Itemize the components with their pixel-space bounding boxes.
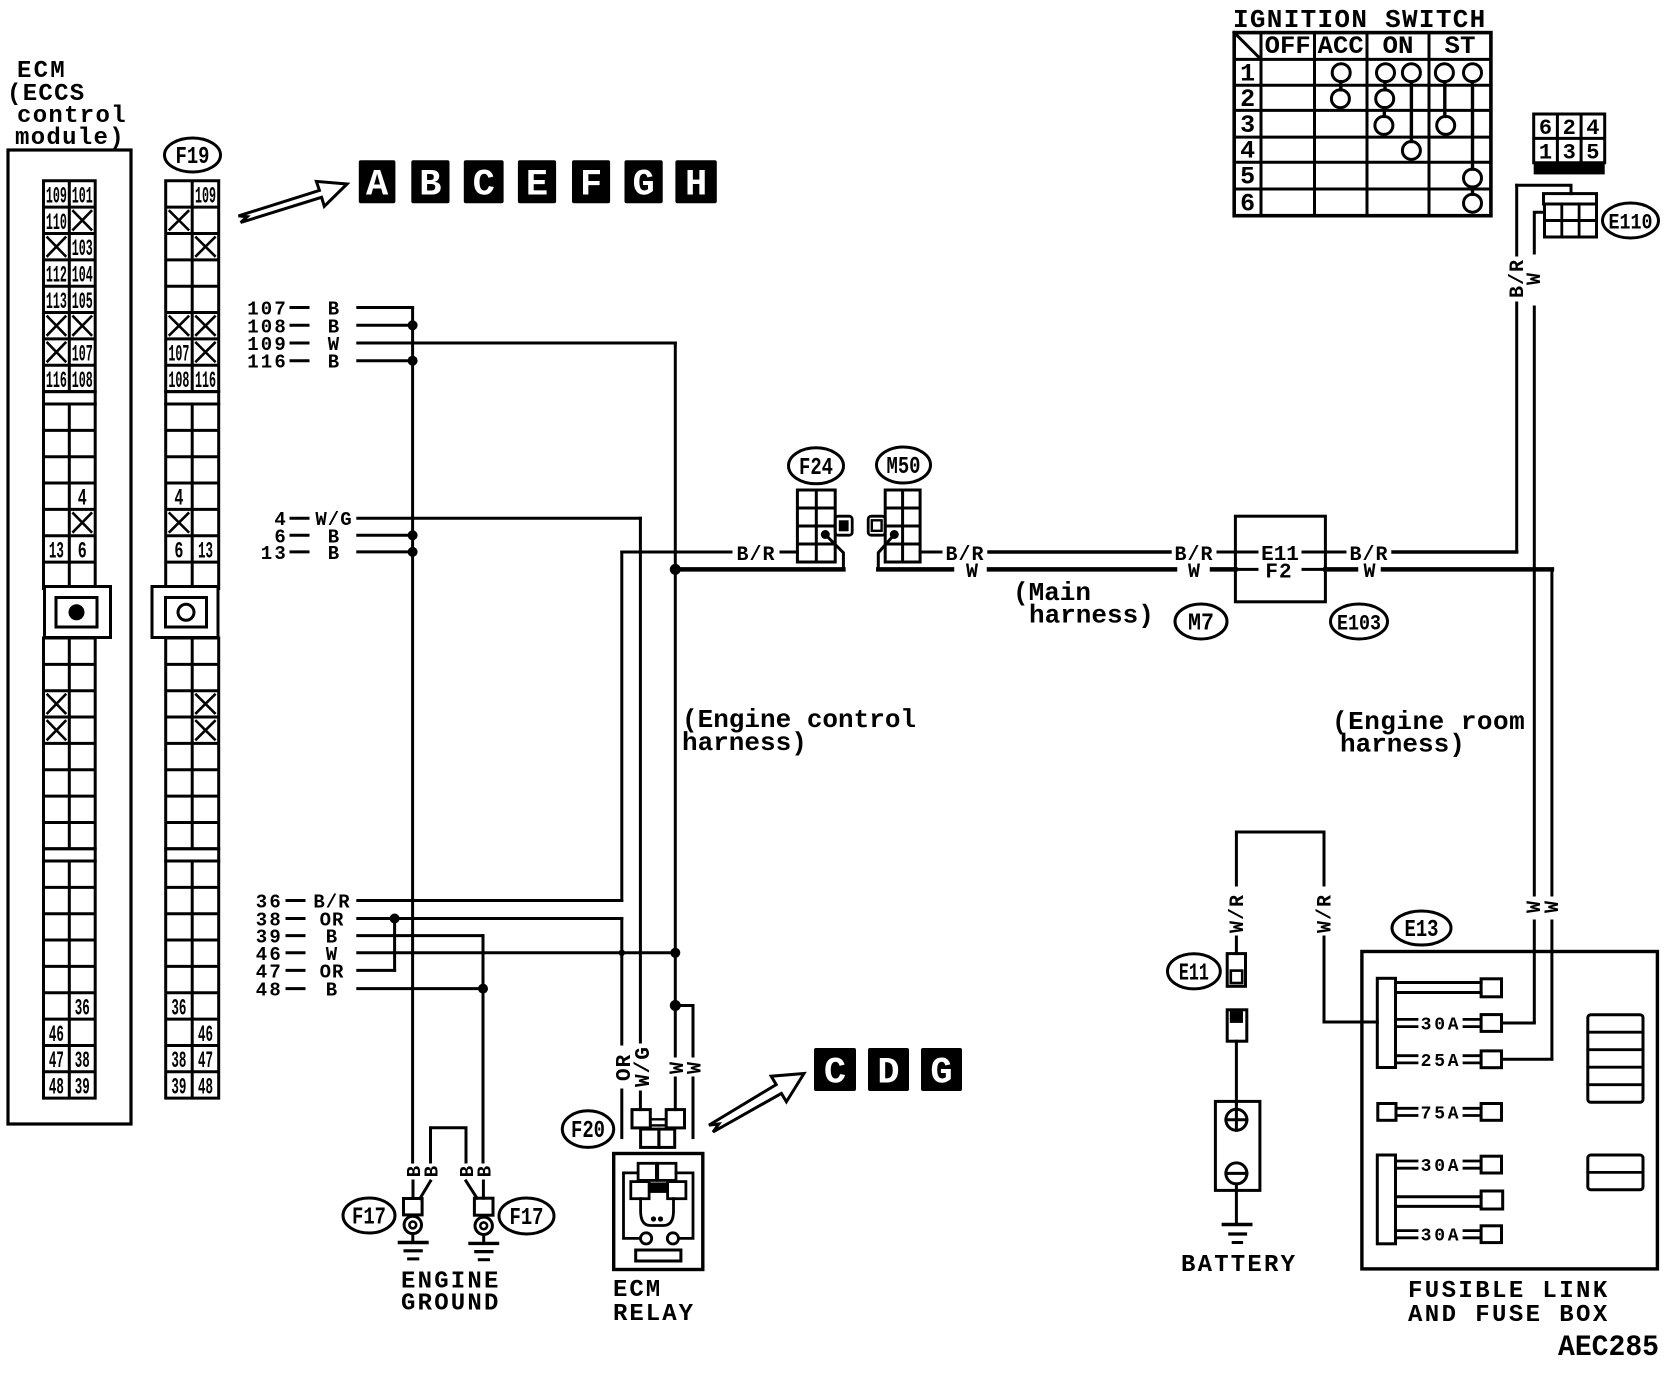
wire W from E110 to fuse box (30A) [1534, 212, 1544, 253]
svg-text:W: W [1188, 561, 1200, 584]
svg-text:13: 13 [49, 538, 64, 564]
connector view label E [518, 160, 556, 203]
svg-text:6: 6 [1539, 116, 1552, 141]
connector E11 oval label [1168, 954, 1221, 989]
connector view label F [572, 160, 610, 203]
svg-text:A: A [366, 165, 389, 207]
connector view label H [675, 160, 716, 203]
svg-text:harness): harness) [682, 728, 807, 758]
relay connector view label G [921, 1048, 962, 1091]
connector F20 pins [632, 1110, 685, 1148]
connector E103 oval label [1331, 604, 1388, 639]
junction small 46-W at OR crossing [619, 950, 625, 956]
F19 connector pin grid lower [166, 638, 219, 849]
svg-text:5: 5 [1240, 163, 1255, 192]
wire W branch to relay [675, 1006, 693, 1057]
svg-text:AEC285: AEC285 [1558, 1331, 1659, 1365]
svg-text:F17: F17 [510, 1205, 544, 1232]
svg-text:39: 39 [171, 1074, 186, 1100]
svg-text:H: H [685, 165, 707, 207]
F19 securing bolt symbol [152, 587, 218, 638]
svg-text:110: 110 [46, 210, 67, 236]
svg-text:E110: E110 [1609, 211, 1653, 236]
junction 46-W [670, 948, 680, 958]
connector F19 oval label [165, 138, 221, 172]
wire B (pins 39/48) to right ground [482, 936, 485, 1162]
svg-text:2: 2 [1240, 85, 1255, 114]
svg-text:2: 2 [1563, 116, 1576, 141]
svg-text:6: 6 [1240, 189, 1255, 218]
svg-text:4: 4 [174, 486, 183, 512]
svg-text:W: W [1363, 561, 1375, 584]
connector M50 grid [885, 490, 920, 562]
F19 connector pin grid [152, 181, 219, 1101]
wire B/R to F24 [622, 551, 731, 554]
svg-text:46: 46 [198, 1022, 213, 1048]
fuse 25A [1396, 1051, 1502, 1072]
svg-text:116: 116 [46, 368, 67, 394]
ignition switch table [1234, 32, 1491, 218]
svg-text:B: B [326, 980, 338, 1002]
svg-text:48: 48 [49, 1074, 64, 1100]
ECM connector pin grid [44, 181, 111, 1101]
svg-text:107: 107 [72, 342, 93, 368]
wire W M50 to E11-F2 box [878, 567, 952, 572]
svg-text:OFF: OFF [1265, 32, 1311, 61]
svg-text:B: B [474, 1166, 496, 1177]
svg-text:F24: F24 [799, 455, 833, 482]
svg-text:F19: F19 [176, 144, 210, 171]
svg-text:harness): harness) [1340, 730, 1465, 760]
svg-text:M50: M50 [887, 454, 921, 481]
svg-text:E103: E103 [1337, 612, 1381, 637]
svg-text:113: 113 [46, 289, 67, 315]
relay connector view label D [868, 1048, 909, 1091]
connector E110 oval label [1603, 203, 1659, 238]
connector F17 oval label (left) [343, 1198, 395, 1233]
connector E13 oval label [1392, 911, 1451, 945]
svg-text:48: 48 [256, 980, 283, 1002]
svg-text:101: 101 [72, 183, 93, 209]
ignition switch contacts [1331, 64, 1481, 213]
wire fuse 25A to W [1502, 1058, 1552, 1061]
junction 13-B [408, 547, 418, 557]
svg-text:GROUND: GROUND [401, 1291, 501, 1318]
wire B ground bus (pins 107/108/116/6/13) [411, 308, 414, 1163]
svg-text:E11: E11 [1179, 960, 1209, 987]
spare fuse stack upper [1588, 1015, 1643, 1103]
wire B/R to ignition switch [1325, 551, 1345, 554]
svg-text:ECM: ECM [613, 1277, 662, 1304]
svg-text:30A: 30A [1421, 1157, 1462, 1177]
right ground lead wires [466, 1181, 477, 1198]
svg-text:112: 112 [46, 263, 67, 289]
wire fuse 30A to W [1502, 1022, 1535, 1025]
ECM securing bolt symbol [45, 587, 111, 638]
arrow pointing to connector face views A-H [239, 181, 348, 222]
svg-text:116: 116 [195, 368, 216, 394]
battery symbol [1215, 1101, 1260, 1190]
svg-text:75A: 75A [1421, 1104, 1462, 1124]
svg-text:105: 105 [72, 289, 93, 315]
wire to battery [1235, 1041, 1238, 1103]
svg-text:AND FUSE BOX: AND FUSE BOX [1408, 1302, 1610, 1329]
ECM relay internals [624, 1163, 694, 1261]
wire OR link 38-47 [393, 919, 396, 971]
svg-text:W: W [1524, 273, 1547, 285]
svg-text:F20: F20 [571, 1118, 605, 1145]
svg-text:B/R: B/R [736, 544, 775, 567]
svg-text:104: 104 [72, 263, 93, 289]
connector F17 oval label (right) [499, 1198, 554, 1234]
svg-text:109: 109 [195, 183, 216, 209]
svg-text:47: 47 [198, 1048, 213, 1074]
svg-text:F17: F17 [352, 1205, 386, 1232]
svg-text:G: G [632, 165, 654, 207]
svg-text:109: 109 [46, 183, 67, 209]
svg-text:5: 5 [1586, 141, 1599, 166]
ECM connector pin grid lower [44, 638, 96, 849]
svg-text:108: 108 [72, 368, 93, 394]
svg-text:W: W [966, 561, 978, 584]
svg-text:3: 3 [1240, 111, 1255, 140]
left engine ground symbol [399, 1234, 427, 1259]
connector view label B [411, 160, 449, 203]
wire W to fuse box (25A) [1325, 567, 1356, 572]
junction W at ECM relay feed [670, 564, 681, 575]
connector view label C [464, 160, 504, 203]
svg-text:103: 103 [72, 236, 93, 262]
svg-text:C: C [824, 1053, 846, 1095]
junction 116-B [408, 356, 418, 366]
junction 108-B [408, 320, 418, 330]
svg-text:4: 4 [1586, 116, 1599, 141]
fusible link top [1396, 979, 1502, 997]
svg-text:3: 3 [1563, 141, 1576, 166]
connector view label G [625, 160, 663, 203]
ignition switch connector face view [1534, 114, 1605, 174]
wire B/R M50 to E11-F2 box [920, 551, 941, 554]
connector M7 oval label [1175, 604, 1227, 639]
fusible link bottom [1396, 1191, 1503, 1209]
svg-text:harness): harness) [1029, 601, 1154, 631]
svg-text:RELAY: RELAY [613, 1301, 695, 1328]
svg-text:B: B [422, 1166, 444, 1177]
ground wire terminals B labels [404, 1166, 497, 1177]
svg-text:13: 13 [261, 543, 288, 565]
svg-text:6: 6 [78, 538, 87, 564]
connector view label A [359, 160, 396, 203]
svg-text:FUSIBLE LINK: FUSIBLE LINK [1408, 1278, 1610, 1305]
svg-text:BATTERY: BATTERY [1181, 1252, 1297, 1279]
fuse box bus bar upper [1377, 978, 1395, 1067]
svg-text:ON: ON [1383, 32, 1414, 61]
svg-text:39: 39 [75, 1074, 90, 1100]
svg-text:47: 47 [49, 1048, 64, 1074]
svg-text:30A: 30A [1421, 1227, 1462, 1247]
wire 4-W/G vertical to relay [639, 518, 642, 1042]
svg-text:B: B [328, 543, 340, 565]
svg-text:E13: E13 [1405, 917, 1439, 944]
svg-text:38: 38 [171, 1048, 186, 1074]
svg-text:B: B [419, 165, 441, 207]
svg-text:IGNITION SWITCH: IGNITION SWITCH [1233, 5, 1487, 35]
M50 tab [868, 516, 885, 535]
junction 48-B [478, 984, 488, 994]
svg-text:38: 38 [75, 1048, 90, 1074]
svg-text:C: C [473, 165, 495, 207]
svg-text:4: 4 [78, 486, 87, 512]
svg-text:G: G [930, 1053, 952, 1095]
wire 109-W vertical [674, 343, 677, 569]
svg-text:108: 108 [168, 368, 189, 394]
wire OR vertical (pin 38) to relay [620, 919, 623, 1045]
fuse 30A (1) [1396, 1015, 1502, 1036]
svg-text:W/G: W/G [633, 1046, 656, 1087]
svg-text:ACC: ACC [1318, 32, 1364, 61]
svg-text:W: W [685, 1062, 708, 1074]
svg-text:F2: F2 [1265, 562, 1292, 585]
ECM relay box [614, 1154, 703, 1270]
fusible link box E11 F2 [1235, 516, 1325, 602]
svg-text:ST: ST [1445, 32, 1476, 61]
svg-text:D: D [877, 1053, 899, 1095]
left ground lead wires [412, 1181, 415, 1199]
fuse 30A (2) [1396, 1156, 1502, 1177]
svg-text:module): module) [15, 125, 125, 152]
connector F24 oval label [789, 448, 844, 484]
svg-text:48: 48 [198, 1074, 213, 1100]
svg-text:4: 4 [1240, 137, 1255, 166]
F24 pin tap diagonal [825, 535, 843, 570]
svg-text:107: 107 [168, 342, 189, 368]
fuse box bus bar lower [1377, 1155, 1395, 1244]
spare fuse stack lower [1588, 1155, 1643, 1190]
svg-text:W/R: W/R [1227, 894, 1250, 933]
junction 38/47 OR [390, 914, 400, 924]
wire W/R into fuse box [1324, 1021, 1377, 1024]
svg-text:116: 116 [247, 352, 288, 374]
battery fusible link symbol [1227, 1010, 1247, 1041]
svg-text:1: 1 [1539, 141, 1552, 166]
connector E110 grid [1544, 194, 1597, 237]
svg-text:M7: M7 [1188, 611, 1214, 638]
arrow pointing to relay connector views [709, 1074, 804, 1133]
right ground eyelet [474, 1198, 493, 1234]
svg-text:B: B [328, 352, 340, 374]
svg-text:F: F [580, 165, 602, 207]
svg-text:25A: 25A [1421, 1052, 1462, 1072]
wire B/R vertical (pin 36) [620, 552, 623, 901]
fuse 75A [1378, 1104, 1502, 1125]
relay connector view label C [814, 1048, 856, 1091]
junction 6-B [408, 530, 418, 540]
svg-text:E: E [526, 165, 548, 207]
connector E11 symbol [1227, 954, 1245, 987]
wire B/R vertical to E110 [1515, 303, 1518, 552]
svg-text:30A: 30A [1421, 1016, 1462, 1036]
M50 pin tap diagonal [878, 535, 894, 570]
junction W branch [670, 1000, 681, 1011]
connector M50 oval label [877, 447, 931, 483]
left ground eyelet [404, 1199, 423, 1234]
fuse 30A (3) [1396, 1226, 1502, 1247]
fusible link and fuse box outline [1362, 952, 1658, 1269]
svg-text:W/R: W/R [1315, 894, 1338, 933]
ECM module outline box [8, 150, 131, 1124]
svg-text:36: 36 [171, 995, 186, 1021]
battery feed bridge wire W/R [1236, 832, 1324, 885]
right engine ground symbol [470, 1235, 498, 1260]
connector F24 grid [797, 490, 835, 562]
ground bridge wire [431, 1128, 467, 1162]
connector F20 oval label [562, 1111, 613, 1148]
svg-text:46: 46 [49, 1022, 64, 1048]
wire W vertical to relay [674, 569, 677, 1056]
battery ground symbol [1223, 1190, 1251, 1242]
ECM (ECCS control module) label [7, 58, 127, 152]
F24 tab [835, 516, 852, 535]
wire W to F24 [675, 567, 843, 572]
svg-text:13: 13 [198, 538, 213, 564]
svg-text:6: 6 [174, 538, 183, 564]
svg-text:36: 36 [75, 995, 90, 1021]
svg-text:W: W [1524, 901, 1547, 913]
